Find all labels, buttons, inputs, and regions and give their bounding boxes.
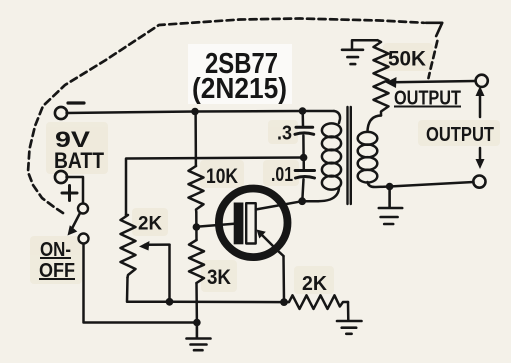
ground (under transformer secondary) (379, 187, 402, 225)
wire: midpoint to .01 (302, 158, 305, 170)
svg-text:2K: 2K (138, 214, 162, 235)
svg-text:.01: .01 (271, 164, 293, 186)
svg-text:.3: .3 (277, 123, 292, 145)
output terminal (top) (476, 75, 488, 87)
pot 50K wiper arrow (393, 81, 476, 82)
node: collector junction (298, 197, 306, 205)
wire: .01 to collector node (302, 179, 303, 201)
svg-text:10K: 10K (206, 165, 238, 188)
wire: 2K to ground stub (347, 302, 350, 321)
node: rail/capacitor chain junction (299, 107, 307, 115)
transformer primary bottom lead (318, 187, 339, 201)
node: ground junction bottom (193, 319, 201, 327)
node: capacitor midpoint (300, 154, 308, 162)
wire: capacitor chain vertical top (301, 111, 304, 126)
transistor base bar (white) (246, 203, 256, 243)
node: emitter/2K junction (280, 298, 288, 306)
svg-text:50K: 50K (388, 48, 426, 71)
transistor Q1 circle (219, 189, 288, 258)
transformer primary top lead (334, 111, 340, 123)
svg-text:BATT: BATT (54, 148, 104, 173)
wire: collector node to transformer primary bottom (302, 200, 318, 203)
dashed enclosure boundary corner hook (426, 23, 442, 36)
wire: pot bottom to rail (127, 278, 170, 302)
node: rail/10K column junction (191, 108, 199, 116)
transistor collector lead (256, 201, 303, 209)
output terminal (bottom) (473, 176, 485, 188)
wire: switch to bottom rail (84, 244, 197, 323)
switch upper contact (78, 204, 88, 214)
dashed enclosure boundary left/top (28, 19, 424, 214)
wire: 50K top to chassis ground (352, 40, 378, 49)
ground (bottom right) (337, 321, 362, 334)
capacitor C1 .3 (296, 126, 313, 129)
transformer secondary top lead (368, 116, 382, 132)
battery positive terminal (55, 171, 67, 183)
arrow down between output labels (479, 148, 482, 163)
resistor 3K (189, 240, 204, 283)
plus sign (62, 186, 77, 201)
svg-text:OFF: OFF (39, 260, 75, 282)
potentiometer 50K (374, 40, 389, 115)
wire: emitter down to rail (282, 256, 285, 302)
minus sign (68, 101, 84, 104)
svg-text:2K: 2K (302, 273, 328, 295)
svg-text:(2N215): (2N215) (192, 73, 287, 105)
svg-text:OUTPUT: OUTPUT (426, 124, 494, 146)
arrow up between output labels (479, 92, 482, 117)
pot 2K wiper arrow (145, 243, 170, 246)
wire: between cap plates (302, 136, 305, 158)
switch lower contact (79, 234, 89, 244)
resistor 2K (emitter, bottom right) (284, 295, 348, 309)
switch blade with arrow (72, 213, 81, 230)
ground (bottom center) (187, 323, 211, 351)
wire: wiper down to emitter rail (168, 245, 171, 302)
wire: bottom output to secondary ground node (390, 182, 474, 187)
transformer primary coil loops (322, 123, 341, 137)
ground (top, at 50K) (342, 50, 363, 64)
node: pot/rail junction (166, 298, 174, 306)
wire: base lead (196, 224, 234, 227)
node: base junction (193, 223, 201, 231)
svg-text:ON-: ON- (40, 239, 71, 261)
capacitor C2 .01 (295, 169, 314, 172)
resistor 10K (189, 166, 204, 212)
wire: 3K to ground junction (crosses emitter rail) (195, 283, 198, 323)
wire: bias line from 2K pot top to capacitor midpoint (126, 158, 304, 216)
node: secondary/output/ground junction (386, 183, 394, 191)
wire: base node to 3K (195, 227, 198, 240)
transformer core (348, 107, 351, 204)
dashed enclosure boundary right diagonal (429, 41, 438, 78)
transformer secondary bottom lead (368, 182, 390, 187)
resistor 2K potentiometer (121, 215, 136, 278)
svg-text:OUTPUT: OUTPUT (394, 88, 461, 110)
battery negative terminal (55, 107, 67, 119)
wire: emitter rail (170, 301, 285, 304)
svg-text:3K: 3K (207, 266, 231, 289)
transformer secondary coil loops (358, 132, 378, 145)
transistor emitter lead with arrow (261, 234, 284, 257)
wire: battery + to switch (67, 177, 84, 203)
wire: top rail from battery to transformer (67, 111, 335, 113)
wire: 10K to base node (195, 212, 198, 227)
transistor base bar (black) (234, 203, 244, 245)
wire: 10K column from top rail (194, 112, 197, 167)
